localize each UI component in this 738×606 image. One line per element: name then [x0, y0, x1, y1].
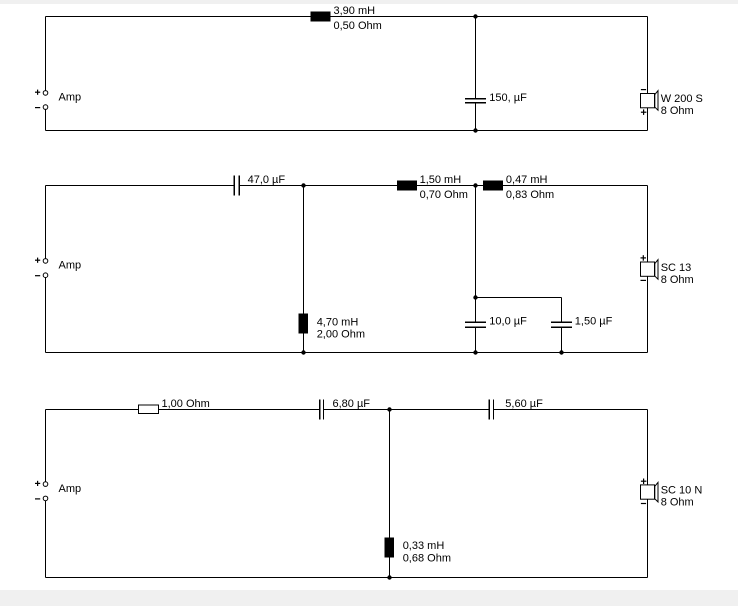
- wire C2 top right: [240, 185, 648, 187]
- wire C1 bottom: [46, 130, 648, 132]
- amp minus sign (circuit 1): [35, 107, 40, 108]
- wire C2 shunt inductor branch: [303, 186, 305, 353]
- svg-text:8 Ohm: 8 Ohm: [661, 274, 694, 286]
- svg-text:Amp: Amp: [59, 92, 82, 104]
- node C1 bottom junction: [473, 128, 477, 132]
- inductor 4,70 mH (shunt): [299, 314, 309, 334]
- wire C3 top seg1: [46, 409, 320, 411]
- node C3 shunt bottom: [387, 575, 391, 579]
- wire C1 right: [647, 17, 649, 131]
- wire C2 bottom: [46, 352, 648, 354]
- svg-text:8 Ohm: 8 Ohm: [661, 497, 694, 509]
- svg-text:6,80 µF: 6,80 µF: [333, 398, 371, 410]
- svg-text:SC 10 N: SC 10 N: [661, 484, 703, 496]
- wire C2 cap branch upper: [475, 186, 477, 322]
- node C2 1,50 µF bottom: [559, 350, 563, 354]
- svg-text:0,70 Ohm: 0,70 Ohm: [420, 189, 468, 201]
- speaker 1 minus sign: [641, 89, 646, 90]
- capacitor 10,0 µF: [465, 321, 486, 328]
- top window chrome strip: [0, 0, 738, 4]
- node C2 junction A: [301, 183, 305, 187]
- inductor 0,33 mH (shunt): [385, 538, 395, 558]
- inductor L2 1,50 mH: [397, 181, 417, 191]
- svg-text:W 200 S: W 200 S: [661, 93, 703, 105]
- wire C3 bottom: [46, 577, 648, 579]
- wire C3 top seg3: [494, 409, 647, 411]
- wire C2 cap branch lower: [475, 328, 477, 353]
- amp terminal + (circuit 2): [43, 259, 48, 264]
- speaker W 200 S cone: [655, 91, 658, 111]
- svg-text:1,00 Ohm: 1,00 Ohm: [162, 398, 210, 410]
- wire C2 parallel link: [476, 297, 562, 299]
- svg-text:47,0 µF: 47,0 µF: [248, 174, 286, 186]
- wire C2 right: [647, 186, 649, 353]
- speaker W 200 S box: [641, 94, 655, 108]
- amp terminal - (circuit 1): [43, 105, 48, 110]
- speaker SC 13 box: [641, 262, 655, 276]
- svg-text:0,50 Ohm: 0,50 Ohm: [334, 20, 382, 32]
- capacitor 150 µF: [465, 98, 486, 104]
- resistor 1,00 Ohm: [139, 405, 159, 414]
- wire C2 top left: [46, 185, 234, 187]
- speaker 3 minus sign: [641, 503, 646, 504]
- amp plus sign (circuit 3): [35, 481, 40, 486]
- svg-text:Amp: Amp: [59, 483, 82, 495]
- svg-text:1,50 µF: 1,50 µF: [575, 316, 613, 328]
- svg-text:4,70 mH: 4,70 mH: [317, 316, 359, 328]
- svg-text:5,60 µF: 5,60 µF: [505, 398, 543, 410]
- svg-text:0,83 Ohm: 0,83 Ohm: [506, 189, 554, 201]
- amp plus sign (circuit 2): [35, 258, 40, 263]
- svg-text:0,33 mH: 0,33 mH: [403, 540, 445, 552]
- amp terminal - (circuit 2): [43, 273, 48, 278]
- svg-text:1,50 mH: 1,50 mH: [420, 174, 462, 186]
- node C2 junction B: [473, 183, 477, 187]
- svg-text:0,47 mH: 0,47 mH: [506, 174, 548, 186]
- wire C1 shunt lower: [475, 104, 477, 131]
- wire C3 shunt branch: [389, 410, 391, 578]
- svg-text:150, µF: 150, µF: [489, 92, 527, 104]
- wire C1 top: [46, 16, 648, 18]
- svg-text:8 Ohm: 8 Ohm: [661, 105, 694, 117]
- bottom window chrome strip: [0, 590, 738, 606]
- node C1 top junction: [473, 14, 477, 18]
- inductor L3 0,47 mH: [483, 181, 503, 191]
- node C2 shunt inductor bottom: [301, 350, 305, 354]
- wire C2 1,50 µF branch upper: [561, 298, 563, 322]
- inductor L1 3,90 mH: [311, 12, 331, 22]
- speaker 2 minus sign: [641, 280, 647, 281]
- wire C1 left lower: [45, 110, 47, 131]
- amp minus sign (circuit 3): [35, 498, 40, 499]
- speaker SC 13 cone: [655, 260, 658, 280]
- svg-text:Amp: Amp: [59, 260, 82, 272]
- node C2 junction C: [473, 295, 477, 299]
- wire C3 right: [647, 410, 649, 578]
- node C3 junction: [387, 407, 391, 411]
- wire C1 left upper: [45, 17, 47, 91]
- capacitor 47,0 µF: [234, 176, 240, 196]
- svg-text:0,68 Ohm: 0,68 Ohm: [403, 552, 451, 564]
- svg-text:3,90 mH: 3,90 mH: [334, 5, 376, 17]
- svg-text:SC 13: SC 13: [661, 262, 692, 274]
- wire C3 left lower: [45, 501, 47, 578]
- capacitor 5,60 µF: [489, 400, 494, 420]
- node C2 cap branch bottom: [473, 350, 477, 354]
- wire C1 shunt upper: [475, 17, 477, 99]
- wire C2 1,50 µF branch lower: [561, 328, 563, 353]
- speaker 2 plus sign: [641, 255, 647, 261]
- wire C3 left upper: [45, 410, 47, 482]
- wire C2 left upper: [45, 186, 47, 259]
- wire C3 top seg2: [324, 409, 488, 411]
- speaker 1 plus sign: [641, 109, 647, 115]
- amp minus sign (circuit 2): [35, 275, 40, 276]
- svg-text:2,00 Ohm: 2,00 Ohm: [317, 329, 365, 341]
- svg-text:10,0 µF: 10,0 µF: [489, 316, 527, 328]
- wire C2 left lower: [45, 278, 47, 353]
- capacitor 6,80 µF: [319, 400, 324, 420]
- amp plus sign (circuit 1): [35, 90, 40, 95]
- speaker SC 10 N cone: [655, 482, 658, 502]
- amp terminal + (circuit 3): [43, 482, 48, 487]
- amp terminal - (circuit 3): [43, 496, 48, 501]
- speaker SC 10 N box: [641, 485, 655, 499]
- amp terminal + (circuit 1): [43, 91, 48, 96]
- capacitor 1,50 µF: [551, 321, 572, 328]
- speaker 3 plus sign: [641, 479, 647, 485]
